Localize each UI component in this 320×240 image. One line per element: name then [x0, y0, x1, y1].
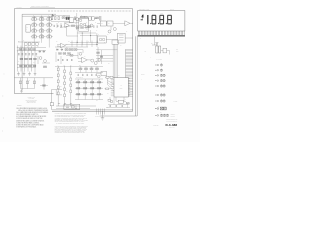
svg-text:(B) DISP: (B) DISP	[141, 74, 145, 76]
svg-text:MEG=1,000,000 UNLESS OTHERWISE: MEG=1,000,000 UNLESS OTHERWISE SPECIFIED…	[18, 110, 49, 112]
svg-text:PWR: PWR	[176, 51, 179, 53]
svg-text:NOTES:: NOTES:	[17, 105, 22, 107]
svg-text:DWG NO: DWG NO	[154, 124, 159, 126]
svg-text:5. SWITCH SHOWN IN 200MV DC PO: 5. SWITCH SHOWN IN 200MV DC POSITION.	[16, 118, 43, 120]
svg-text:POSITIONS: POSITIONS	[171, 115, 176, 117]
svg-text:8-36 SCH: 8-36 SCH	[17, 7, 22, 9]
svg-text:LCD: LCD	[161, 12, 163, 14]
svg-text:SIMPSON ELECTRIC CO: SIMPSON ELECTRIC CO	[166, 119, 177, 121]
svg-text:TRK: TRK	[176, 48, 178, 50]
svg-text:SW NOTE: SW NOTE	[174, 101, 178, 103]
svg-text:SHEET 1 OF 1: SHEET 1 OF 1	[169, 127, 175, 129]
svg-text:D-3-388: D-3-388	[166, 123, 178, 127]
svg-text:TP1 TP2 TP3: TP1 TP2 TP3	[95, 116, 100, 118]
svg-text:IC: IC	[120, 85, 121, 87]
svg-text:PN 5-113: PN 5-113	[170, 9, 174, 11]
svg-text:R31 R32 R33 R34: R31 R32 R33 R34	[76, 77, 83, 79]
svg-text:7106: 7106	[120, 87, 123, 89]
svg-text:USED IN THIS UNIT: USED IN THIS UNIT	[27, 102, 37, 104]
